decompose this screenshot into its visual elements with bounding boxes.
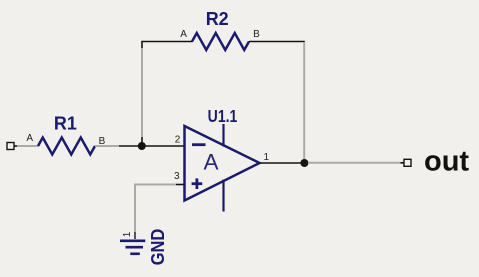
svg-text:3: 3 — [174, 171, 180, 182]
wire ground horizontal — [135, 184, 176, 186]
svg-text:out: out — [424, 146, 469, 178]
svg-text:R1: R1 — [54, 114, 77, 134]
node junction input — [138, 142, 146, 150]
svg-text:R2: R2 — [206, 9, 229, 29]
svg-text:A: A — [180, 29, 187, 40]
resistor R1 — [38, 138, 95, 155]
wire R1 to op-amp pin 2 — [119, 145, 185, 147]
wire R2 pin B to feedback top right — [249, 41, 305, 43]
wire feedback right vertical — [303, 42, 305, 160]
op-amp positive supply pin — [222, 124, 224, 147]
ground — [120, 241, 145, 254]
svg-text:1: 1 — [264, 152, 270, 163]
svg-text:B: B — [253, 29, 260, 40]
wire feedback left vertical — [141, 42, 143, 143]
op-amp U1.1 triangle — [185, 126, 260, 201]
svg-text:GND: GND — [147, 229, 168, 266]
wire output junction to terminal — [308, 162, 404, 164]
wire feedback top left to R2 pin A — [141, 41, 192, 43]
node junction output — [300, 159, 308, 167]
resistor R2 — [192, 33, 249, 50]
svg-text:A: A — [203, 150, 218, 175]
terminal OUT — [401, 159, 412, 166]
op-amp plus input marker — [192, 178, 203, 189]
svg-text:2: 2 — [175, 135, 181, 146]
wire ground vertical — [134, 184, 136, 240]
wire op-amp pin 3 stub — [176, 184, 185, 186]
wire R1 pin B stub — [95, 145, 119, 147]
svg-text:A: A — [26, 133, 33, 144]
svg-text:1: 1 — [122, 231, 133, 237]
op-amp minus input marker — [192, 143, 206, 146]
svg-text:U1.1: U1.1 — [208, 106, 238, 126]
wire input terminal to R1 pin A — [17, 145, 39, 147]
wire op-amp pin 1 to output junction — [260, 162, 304, 164]
terminal IN — [7, 143, 19, 150]
op-amp negative supply pin — [222, 180, 224, 212]
